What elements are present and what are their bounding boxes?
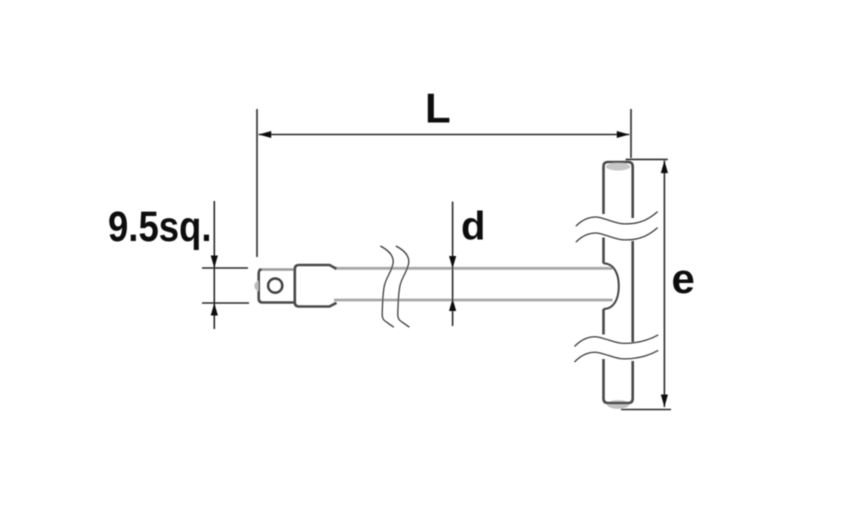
svg-text:d: d (461, 205, 485, 249)
svg-text:9.5sq.: 9.5sq. (108, 203, 212, 251)
svg-text:e: e (672, 255, 695, 302)
svg-text:L: L (425, 85, 451, 132)
